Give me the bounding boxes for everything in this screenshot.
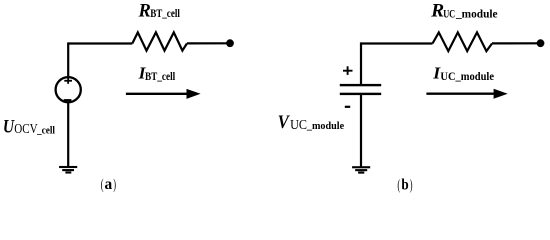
ground: circuit b bar 1 [352, 166, 370, 168]
svg-text:BT_cell: BT_cell [150, 8, 180, 20]
wire: circuit a source to ground [67, 102, 69, 166]
voltage source plus sign [64, 77, 72, 84]
svg-text:_module: _module [306, 121, 345, 132]
svg-text:R: R [430, 2, 444, 22]
ground: circuit b bar 2 [355, 169, 367, 171]
svg-text:OCV: OCV [14, 121, 37, 136]
label R_UC_module [430, 2, 497, 22]
svg-text:_module: _module [455, 8, 498, 20]
current arrow I_UC_module [426, 89, 507, 99]
wire: circuit a left vertical (top wire down to source) [67, 42, 69, 77]
svg-text:BT_cell: BT_cell [145, 71, 175, 83]
wire: circuit a resistor to terminal [187, 42, 230, 44]
svg-text:(: ( [397, 177, 400, 193]
resistor R2 zigzag body (UC module) [433, 32, 493, 51]
wire: circuit b resistor to terminal [492, 42, 541, 44]
label I_BT_cell [138, 63, 176, 83]
capacitor C1 top plate [340, 84, 381, 86]
ground: circuit a bar 2 [62, 169, 74, 171]
label R_BT_cell [138, 1, 180, 21]
resistor R1 zigzag body (battery cell) [132, 32, 187, 50]
wire: circuit b left vertical (top wire down to capacitor) [360, 42, 362, 84]
label I_UC_module [432, 63, 494, 83]
wire: circuit b top horizontal from capacitor to resistor [361, 42, 433, 44]
caption (a) [101, 176, 116, 193]
svg-text:UC: UC [290, 117, 307, 132]
ground: circuit a bar 1 [59, 166, 77, 168]
svg-text:UC_module: UC_module [440, 71, 494, 83]
wire: circuit a top horizontal from source to resistor [68, 42, 132, 44]
voltage source U1 circle [56, 77, 81, 102]
current arrow I_BT_cell [126, 89, 201, 99]
svg-text:): ) [113, 177, 116, 193]
capacitor minus polarity label [345, 106, 350, 108]
svg-text:b: b [401, 177, 408, 194]
ground: circuit a bar 3 [65, 171, 71, 173]
svg-text:_cell: _cell [36, 126, 55, 137]
wire: circuit b capacitor to ground [360, 95, 362, 167]
svg-text:(: ( [101, 177, 104, 193]
node: circuit b terminal dot [537, 39, 545, 47]
svg-text:V: V [278, 112, 291, 133]
svg-text:R: R [138, 1, 151, 21]
svg-text:a: a [105, 176, 113, 193]
capacitor C1 bottom plate [340, 93, 381, 95]
ground: circuit b bar 3 [358, 172, 364, 174]
svg-text:): ) [410, 177, 413, 193]
capacitor plus polarity label [343, 66, 353, 75]
node: circuit a terminal dot [226, 39, 234, 47]
caption (b) [397, 177, 412, 194]
label V_UC_module [278, 112, 345, 133]
voltage source minus sign [64, 99, 72, 101]
svg-text:UC: UC [443, 8, 455, 20]
label U_OCV_cell [3, 117, 55, 137]
